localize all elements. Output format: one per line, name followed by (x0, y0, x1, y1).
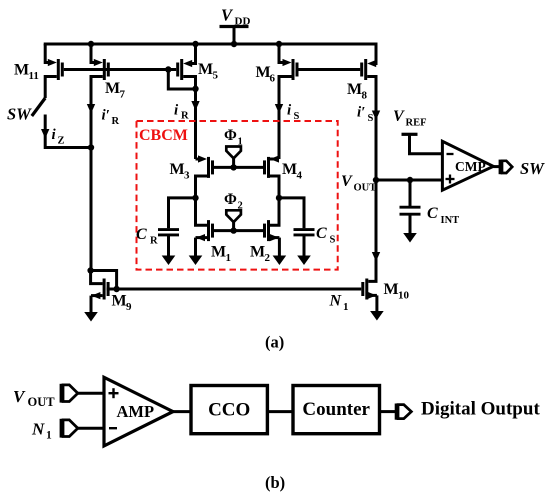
svg-text:3: 3 (184, 170, 190, 182)
svg-text:Digital Output: Digital Output (421, 399, 540, 420)
svg-text:R: R (181, 111, 189, 122)
svg-text:M: M (347, 81, 362, 98)
svg-text:7: 7 (120, 89, 126, 101)
svg-text:Z: Z (58, 136, 65, 147)
svg-text:10: 10 (398, 290, 410, 302)
svg-text:C: C (427, 205, 438, 222)
svg-text:OUT: OUT (354, 183, 377, 194)
svg-text:M: M (256, 64, 271, 81)
svg-text:DD: DD (235, 16, 251, 28)
svg-text:AMP: AMP (117, 402, 155, 421)
svg-text:2: 2 (265, 252, 271, 264)
svg-text:M: M (250, 244, 265, 261)
svg-text:OUT: OUT (28, 395, 56, 409)
svg-text:V: V (341, 173, 353, 190)
svg-text:INT: INT (441, 215, 460, 226)
svg-text:Φ: Φ (224, 191, 237, 208)
svg-text:M: M (282, 161, 297, 178)
svg-text:i′: i′ (102, 108, 110, 124)
svg-text:N: N (329, 293, 343, 310)
svg-text:i′: i′ (357, 105, 365, 121)
svg-text:(a): (a) (265, 333, 284, 352)
svg-text:9: 9 (126, 301, 132, 313)
svg-text:C: C (136, 226, 147, 243)
svg-text:1: 1 (343, 301, 349, 313)
svg-text:11: 11 (29, 70, 39, 82)
svg-text:SW: SW (7, 105, 32, 124)
svg-text:8: 8 (362, 90, 368, 102)
svg-text:1: 1 (226, 252, 232, 264)
svg-text:M: M (384, 281, 399, 298)
svg-text:6: 6 (270, 73, 276, 85)
svg-text:CCO: CCO (208, 400, 250, 421)
svg-text:CMP: CMP (455, 159, 486, 174)
svg-text:1: 1 (238, 137, 243, 148)
svg-text:Counter: Counter (302, 399, 370, 420)
svg-text:N: N (31, 420, 45, 439)
svg-text:R: R (150, 236, 158, 247)
svg-text:Φ: Φ (224, 127, 237, 144)
svg-text:M: M (170, 161, 185, 178)
svg-text:(b): (b) (265, 473, 285, 492)
svg-text:M: M (112, 293, 127, 310)
svg-text:V: V (13, 387, 26, 406)
svg-text:C: C (316, 225, 327, 242)
svg-text:2: 2 (238, 201, 243, 212)
svg-text:S: S (368, 113, 374, 124)
svg-text:V: V (393, 108, 405, 125)
svg-text:R: R (112, 116, 120, 127)
svg-text:S: S (330, 235, 336, 246)
svg-text:M: M (14, 62, 29, 79)
svg-text:4: 4 (297, 170, 303, 182)
svg-text:M: M (105, 80, 120, 97)
svg-text:CBCM: CBCM (139, 127, 188, 144)
svg-text:M: M (198, 61, 213, 78)
svg-text:5: 5 (213, 70, 219, 82)
svg-text:SW: SW (520, 159, 545, 178)
svg-text:1: 1 (46, 430, 52, 442)
svg-text:M: M (211, 244, 226, 261)
svg-text:REF: REF (406, 118, 427, 129)
